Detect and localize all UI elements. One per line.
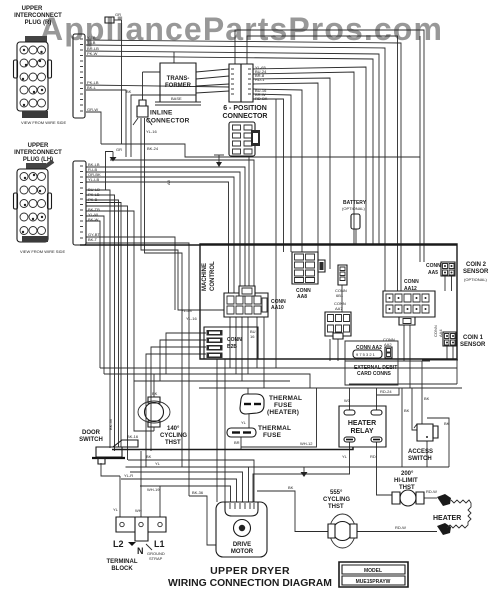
wire top bus 0b [247,36,398,291]
svg-text:YL-24: YL-24 [181,308,192,313]
svg-text:AA5: AA5 [428,270,438,276]
svg-text:SENSOR: SENSOR [463,269,489,275]
svg-text:FORMER: FORMER [165,83,192,89]
wire bus y388 [199,387,462,389]
wire N feed [135,451,142,517]
wire B2B left leads [146,333,206,467]
svg-text:PLUG (R): PLUG (R) [25,20,52,26]
svg-text:HEATER: HEATER [433,515,461,522]
wire WH-12 line [241,388,317,447]
svg-text:PK-W: PK-W [87,51,98,56]
svg-text:MODEL: MODEL [364,568,382,574]
svg-text:BK: BK [288,485,294,490]
svg-text:GR: GR [115,12,121,17]
wire AA12 tab drops [404,325,410,388]
svg-text:MUE15PRAYW: MUE15PRAYW [356,579,391,585]
wire coin1 right edge [456,359,458,384]
svg-text:FUSE: FUSE [263,432,282,439]
switch door switch [79,430,139,464]
wire strip2 out 8b [86,216,104,374]
svg-text:YL-R: YL-R [124,473,133,478]
svg-text:BK-36: BK-36 [108,418,113,430]
wire transformer primary BK [126,89,160,157]
svg-text:MOTOR: MOTOR [231,549,254,555]
connector 6-position label [223,105,268,120]
svg-text:HEATER: HEATER [348,420,376,427]
wire strip2 out 10 [86,179,175,310]
svg-text:YL-16: YL-16 [146,129,157,134]
svg-text:(HEATER): (HEATER) [267,409,299,416]
svg-text:200°: 200° [401,471,414,477]
wire top bus 0a [235,30,424,262]
wire right drop x402 [401,388,403,467]
terminal block [107,517,167,572]
svg-text:BK-T: BK-T [88,237,98,242]
ground symbol mid [301,467,308,477]
wire motor pin2 [121,473,237,502]
wire transformer secondary 3 [196,84,229,86]
svg-text:CONNECTOR: CONNECTOR [223,113,268,120]
wire 140 thst top feed [153,374,155,397]
wire transformer top feed [173,52,175,63]
svg-text:SWITCH: SWITCH [408,456,432,462]
svg-text:CONN: CONN [227,337,242,343]
wire bus B2 [110,160,254,293]
svg-text:BR: BR [234,440,240,445]
svg-text:BK: BK [444,421,450,426]
svg-text:STRAP: STRAP [149,556,163,561]
svg-text:MACHINE: MACHINE [202,263,208,291]
svg-text:GR-W: GR-W [87,107,98,112]
svg-text:FUSE: FUSE [274,402,293,409]
connector CONN B2B board [181,308,258,359]
wire 6-pos grid stub [248,156,250,293]
svg-text:BK: BK [404,408,410,413]
wire GR drop [121,20,123,144]
wire 6-pos out 6 [253,94,291,252]
svg-text:CONN: CONN [404,279,419,285]
svg-text:VIEW FROM WIRE SIDE: VIEW FROM WIRE SIDE [20,249,65,254]
connector P1 upper interconnect plug (RH) label [14,6,62,26]
svg-text:AA2: AA2 [384,342,392,347]
wire inline connector up [143,72,161,100]
model box [339,562,408,587]
transformer T1 [155,63,201,105]
svg-text:AA8: AA8 [297,294,307,300]
connector P1 upper interconnect plug (RH) body [14,36,67,125]
wire bus below board 3 [134,380,290,382]
wire top bus 1 [86,40,401,291]
wire strip2 out 7 doubled to door switch [86,200,121,447]
wire bus y467 [126,461,450,502]
svg-text:THST: THST [328,504,344,510]
motor M1 drive motor [216,502,267,557]
node arrow symbol [214,155,224,167]
svg-text:BK-24: BK-24 [147,146,159,151]
svg-text:YL-16: YL-16 [186,316,197,321]
svg-text:BASE: BASE [171,96,182,101]
svg-text:TRANS-: TRANS- [167,76,190,82]
svg-text:INTERCONNECT: INTERCONNECT [14,13,62,19]
wire 6B1 drop [341,285,343,312]
wire 6-pos out 4 [253,83,318,252]
wire L1 feed [140,486,160,517]
svg-text:HI-LIMIT: HI-LIMIT [394,478,418,484]
svg-text:ACCESS: ACCESS [408,449,433,455]
connector CONN AA4 [433,325,456,346]
wire strip2 out 11 [86,243,189,496]
wire 555 to heater [357,525,437,532]
svg-text:RD: RD [370,454,376,459]
wire heater relay bottom right to hi-limit [370,442,392,495]
svg-text:RD-BK: RD-BK [255,96,268,101]
connector K1 transformer output 4-pin [229,64,268,102]
thermostat 555 cycling [323,490,357,548]
svg-text:SENSOR: SENSOR [460,342,486,348]
wire top bus 3 [86,51,379,244]
svg-text:BK-L: BK-L [87,85,97,90]
wire inline connector body [141,118,224,467]
wire 6-pos out 1 [253,67,366,244]
svg-text:GR: GR [116,147,122,152]
battery B1 (optional) [342,200,367,229]
svg-text:SWITCH: SWITCH [79,437,103,443]
connector CONN 6B1 [335,265,347,298]
svg-text:CARD CONNS: CARD CONNS [357,371,392,377]
external debit card connector box [345,341,398,385]
wire strip1 GR-W [86,112,101,144]
wire heater relay bottom left down [253,442,350,502]
thermostat 140 cycling [138,391,187,446]
connector CONN AA10 [224,286,286,317]
thermal fuse [227,425,291,439]
inline connector symbol [133,100,190,125]
wire motor pin3 [130,472,243,502]
wire transformer secondary 1 [196,69,229,72]
ground wire GR terminal top [105,12,122,23]
wire door switch bus thick [112,448,353,450]
switch access switch [408,424,438,462]
svg-text:6B1: 6B1 [336,293,344,298]
svg-text:VIEW FROM WIRE SIDE: VIEW FROM WIRE SIDE [21,120,66,125]
svg-text:6 - POSITION: 6 - POSITION [223,105,267,112]
svg-text:YL: YL [241,420,247,425]
wire thermal fuse heater drop [241,388,249,428]
machine control board outline [200,244,457,359]
wire motor right [257,485,328,532]
wire bus below board 2 [104,374,310,388]
wire motor pin1 [140,486,231,502]
wire 6-pos out 7 [253,99,284,252]
svg-text:UPPER: UPPER [28,143,49,149]
svg-text:RD-W: RD-W [426,489,437,494]
svg-text:CYCLING: CYCLING [160,433,187,439]
caption [168,565,332,589]
svg-text:PK-B: PK-B [88,197,98,202]
wire access switch right [427,418,450,467]
wire access switch bottom [426,441,428,467]
wire AA7 drops [330,339,338,361]
svg-text:THERMAL: THERMAL [258,425,291,432]
wire AA5 drops [445,276,452,291]
svg-text:555°: 555° [330,490,343,496]
relay K2 heater relay [339,406,386,447]
wire bus debit [345,360,430,362]
wire access switch feed [422,361,430,424]
wire strip2 out 5 [86,190,110,448]
svg-text:9 7 5 3 2 1: 9 7 5 3 2 1 [356,352,376,357]
wire strip2 out 9 [86,211,154,431]
svg-text:AA7: AA7 [335,306,343,311]
connector J2 strip (lower) [73,161,101,245]
wire strip1 BK-L [86,90,126,157]
wire heater relay top right [377,388,400,410]
svg-text:BK: BK [424,396,430,401]
wire 6-pos out 3 [253,78,330,269]
wire thermal fuse down [234,437,241,449]
connector CONN AA5 [426,262,455,276]
wire battery drop [355,229,357,244]
coin 1 sensor label [460,335,486,348]
wire bus y384 [349,383,457,385]
thermostat 200 hi-limit [392,471,437,506]
connector AA2 2-pin [383,337,395,358]
wire strip2 out 3 [86,177,234,293]
svg-text:COIN 2: COIN 2 [466,262,487,268]
wire strip2 out 6 [86,195,115,451]
wire AA4 feeds [422,346,458,360]
wire strip2 out 8 [86,206,128,460]
svg-text:WIRING CONNECTION DIAGRAM: WIRING CONNECTION DIAGRAM [168,578,332,589]
wire AA10 bottom drops [230,317,264,388]
svg-text:UPPER DRYER: UPPER DRYER [210,565,290,577]
heater element [433,494,471,535]
svg-text:RELAY: RELAY [350,428,373,435]
svg-text:A3: A3 [166,179,171,185]
svg-text:BLOCK: BLOCK [111,566,133,572]
connector CONN AA12 [383,279,435,325]
svg-text:BK-36: BK-36 [192,490,204,495]
svg-text:BK: BK [146,454,152,459]
wire L2 feed [101,463,120,517]
svg-text:(OPTIONAL): (OPTIONAL) [342,206,366,211]
connector CONN AA7 [325,301,351,339]
svg-text:YL: YL [155,461,161,466]
svg-text:140°: 140° [167,426,180,432]
svg-text:RD-W: RD-W [395,525,406,530]
svg-text:N: N [137,546,144,556]
wire top bus 4 [86,56,373,244]
connector 6-position body [229,122,260,156]
wire 6-pos out 5 [253,89,302,252]
watermark [40,11,443,47]
svg-text:RD-24: RD-24 [380,389,392,394]
coin 2 sensor label [463,262,489,282]
wire main bus dark [80,244,457,246]
wire 6-pos out 2 [253,72,354,244]
connector P2 upper interconnect plug (LH) label [14,143,62,163]
svg-text:CONTROL: CONTROL [210,261,216,291]
wire strip2 out 4 [86,182,229,293]
wire door switch lower bus [128,454,254,502]
svg-text:W3: W3 [344,398,351,403]
svg-text:BK-W: BK-W [88,217,99,222]
svg-text:CONNECTOR: CONNECTOR [146,118,190,125]
connector P2 upper interconnect plug (LH) body [14,159,66,254]
svg-text:YL-LB: YL-LB [88,177,99,182]
svg-text:B2B: B2B [227,344,237,350]
svg-text:TERMINAL: TERMINAL [107,559,138,565]
wire heater relay top left [344,388,351,410]
svg-text:UPPER: UPPER [22,6,43,12]
svg-text:CYCLING: CYCLING [323,497,350,503]
svg-text:COIN 1: COIN 1 [463,335,484,341]
svg-text:WH: WH [135,508,142,513]
wire bus B1 stepped [101,36,420,262]
svg-text:L1: L1 [154,539,165,549]
connector CONN AA2 pill [353,345,382,358]
wire long drop left of AA8 [275,99,277,368]
connector CONN AA8 [292,252,325,300]
svg-text:THST: THST [165,440,181,446]
wire strip1 PK-LB [86,85,229,87]
svg-text:L2: L2 [113,539,124,549]
svg-text:BK: BK [126,89,132,94]
svg-text:YL: YL [342,454,348,459]
wire bus below board 1 [100,367,457,369]
wire motor left low [189,490,216,545]
wire B2B bottom drops to motor [217,359,225,502]
svg-text:INTERCONNECT: INTERCONNECT [14,150,62,156]
svg-text:BK: BK [152,391,158,396]
wire access switch left [404,388,417,430]
svg-text:RD-1: RD-1 [255,77,265,82]
svg-text:INLINE: INLINE [150,110,173,117]
svg-text:THERMAL: THERMAL [269,395,302,402]
svg-text:DRIVE: DRIVE [233,542,251,548]
svg-text:BK-16: BK-16 [127,434,139,439]
svg-text:AA10: AA10 [271,305,284,311]
svg-text:16: 16 [250,334,255,339]
svg-text:(OPTIONAL): (OPTIONAL) [464,277,488,282]
wire strip2 out 2 [86,172,240,293]
svg-text:AA4: AA4 [438,329,443,337]
svg-text:YL: YL [113,507,119,512]
wire transformer secondary 4 [196,91,229,93]
wire strip2 out 1 [86,167,245,293]
wire top bus 2 [86,45,385,291]
svg-text:WH-19: WH-19 [147,487,160,492]
wire transformer secondary 2 [196,76,229,79]
svg-text:T-LB: T-LB [87,40,96,45]
connector J1 strip (upper) [73,34,99,118]
ground symbol GR left [106,147,123,190]
svg-text:DOOR: DOOR [82,430,101,436]
wire strip2 out 9b [86,221,100,368]
thermal fuse (heater) [240,394,302,416]
wire hi-limit to heater plug [424,497,437,499]
svg-text:WH-12: WH-12 [300,441,313,446]
svg-text:CONN: CONN [426,263,441,269]
